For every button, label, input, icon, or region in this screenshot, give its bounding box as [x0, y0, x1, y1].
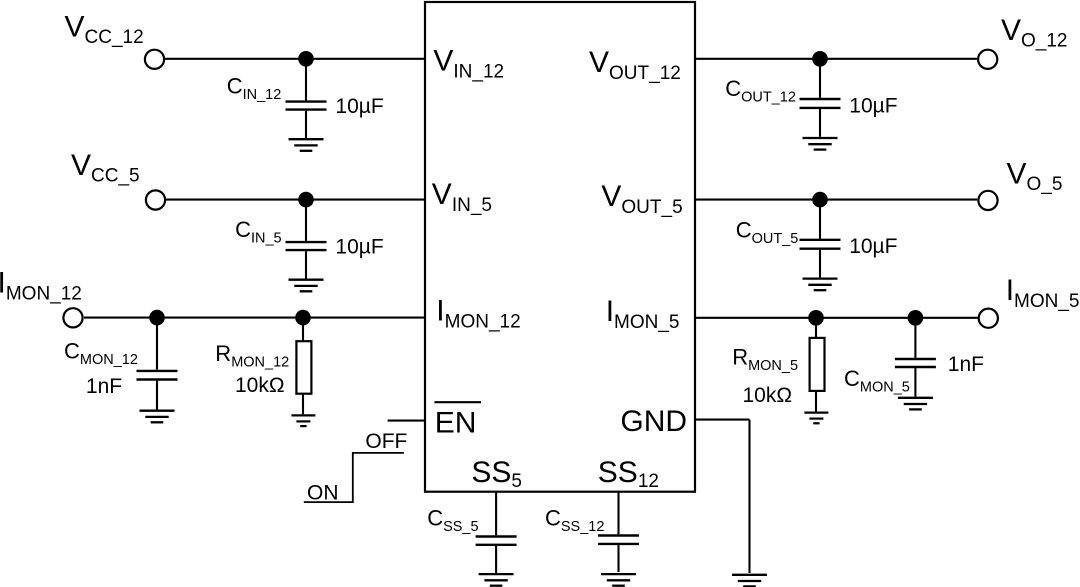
wire GND horizontal: [696, 419, 750, 421]
node junction COUT_5: [812, 192, 828, 208]
svg-text:1nF: 1nF: [948, 353, 984, 376]
svg-text:OFF: OFF: [365, 430, 407, 453]
terminal IMON_12: [63, 308, 82, 327]
node junction CIN_12: [298, 51, 314, 67]
capacitor CMON_5: [895, 318, 936, 397]
terminal VO_5: [978, 191, 997, 210]
node junction RMON_12: [295, 310, 311, 326]
EN overline: [434, 401, 481, 403]
svg-text:10µF: 10µF: [849, 235, 897, 258]
ground under CMON_12: [140, 411, 175, 423]
svg-text:GND: GND: [620, 405, 687, 438]
wire GND vertical: [748, 420, 750, 573]
IC U1 box: [425, 2, 695, 492]
EN step waveform: [304, 453, 404, 502]
wire VCC_12 to VIN_12: [165, 58, 424, 60]
terminal VCC_12: [145, 50, 164, 69]
svg-text:ON: ON: [307, 481, 339, 504]
pin EN stub wire: [388, 420, 424, 422]
ground under CSS_12: [601, 574, 636, 586]
node junction COUT_12: [812, 51, 828, 67]
wire VCC_5 to VIN_5: [166, 199, 424, 201]
wire VOUT_5 to VO_5: [696, 199, 977, 201]
capacitor CSS_5: [476, 492, 517, 573]
ground under RMON_5: [804, 413, 828, 424]
terminal VO_12: [978, 50, 997, 69]
wire VOUT_12 to VO_12: [696, 58, 977, 60]
resistor RMON_5: [810, 318, 825, 412]
node junction CMON_5: [908, 310, 924, 326]
wire IMON_12 to pin: [84, 317, 424, 319]
capacitor COUT_5: [800, 200, 841, 278]
capacitor CSS_12: [598, 492, 639, 572]
capacitor CIN_5: [286, 200, 327, 279]
ground under COUT_12: [803, 138, 838, 150]
ground under CMON_5: [898, 398, 933, 410]
svg-text:10kΩ: 10kΩ: [235, 374, 285, 397]
terminal VCC_5: [146, 190, 165, 209]
wire IMON_5 to terminal: [696, 317, 978, 319]
node junction RMON_5: [808, 310, 824, 326]
svg-text:10kΩ: 10kΩ: [743, 384, 793, 407]
ground under COUT_5: [803, 279, 838, 291]
svg-text:10µF: 10µF: [335, 95, 383, 118]
ground GND: [732, 575, 767, 587]
svg-text:10µF: 10µF: [849, 94, 897, 117]
svg-text:10µF: 10µF: [335, 235, 383, 258]
node junction CIN_5: [298, 192, 314, 208]
ground under CIN_12: [289, 139, 324, 151]
ground under CSS_5: [479, 574, 514, 586]
node junction CMON_12: [149, 310, 165, 326]
svg-text:1nF: 1nF: [86, 375, 122, 398]
capacitor CMON_12: [137, 318, 178, 410]
terminal IMON_5: [979, 309, 998, 328]
resistor RMON_12: [296, 318, 311, 415]
capacitor CIN_12: [286, 59, 327, 138]
capacitor COUT_12: [800, 59, 841, 137]
ground under RMON_12: [291, 415, 315, 426]
svg-text:EN: EN: [435, 406, 477, 439]
ground under CIN_5: [289, 280, 324, 292]
